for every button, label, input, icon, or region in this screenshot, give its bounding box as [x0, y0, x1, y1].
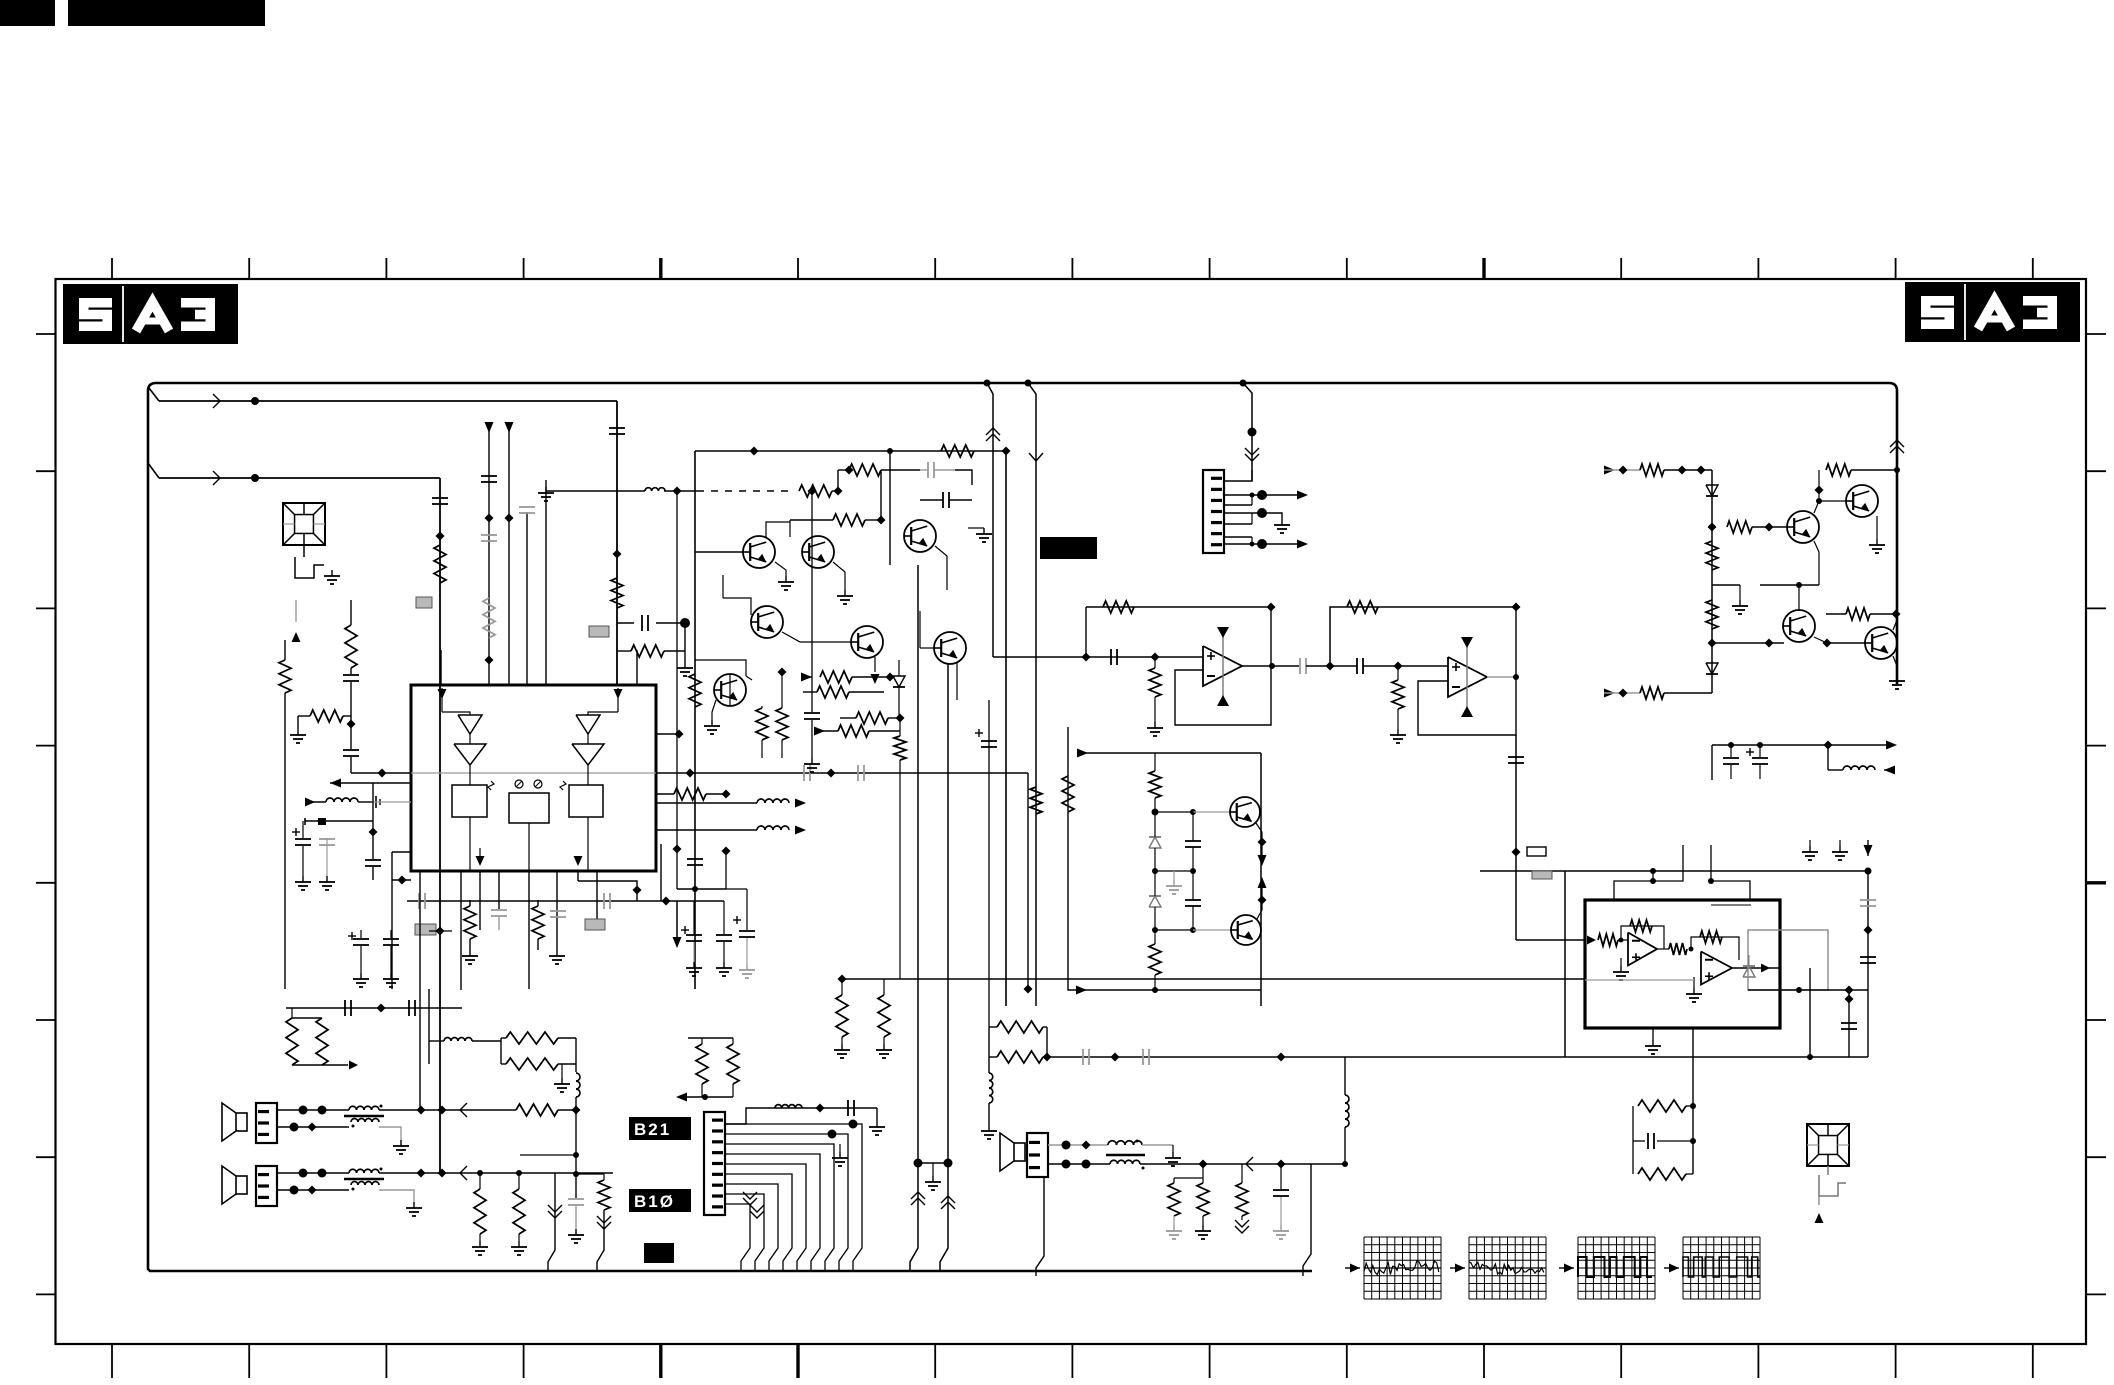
SP3 coil top [1108, 1140, 1173, 1146]
U2 feedback box [1175, 607, 1271, 725]
ruler ticks top [112, 258, 2033, 279]
cap x1281 b [1273, 1164, 1289, 1225]
resistor U2 minus [1149, 657, 1161, 722]
resistor U3 fb [1347, 601, 1378, 613]
node y745 a [1728, 741, 1833, 750]
ground x562 [554, 1064, 570, 1092]
ecap x747 [726, 889, 755, 978]
IC U1 zig b [560, 781, 566, 790]
ground U4 a [1802, 840, 1818, 860]
coil y1108 [775, 1104, 825, 1113]
resistor x1712 a [1706, 541, 1718, 570]
cap x499 [491, 910, 507, 930]
rail x1565 [1564, 871, 1566, 1057]
resistor y794 [656, 788, 731, 800]
capacitor on x440 [432, 498, 448, 504]
resistor x900 [894, 718, 906, 979]
ecap x361 [348, 930, 369, 973]
SP3 coil bot [1110, 1157, 1345, 1171]
resistor x1242 [1235, 1164, 1249, 1233]
SP3 nodes y1164 [1199, 1160, 1349, 1169]
cap x1731 [1723, 745, 1739, 779]
resistor base Q10 [1727, 521, 1787, 533]
SP1 out top [379, 1103, 516, 1117]
wire y990 right [1748, 986, 1868, 995]
resistor x1203 [1197, 1183, 1209, 1225]
cap y1008 a [345, 1000, 351, 1016]
IC U1 body [411, 685, 656, 871]
resistor U3 minus [1392, 666, 1404, 729]
Q4-Q5 wire [782, 632, 851, 642]
U4 in arrow [1516, 936, 1596, 945]
node y901 [662, 897, 671, 906]
ground x327 [319, 876, 335, 890]
resistor loop A [989, 1021, 1047, 1057]
wire y491 up [837, 470, 839, 491]
node mid y666 [1326, 662, 1335, 671]
arrow wire y753 [1077, 749, 1261, 758]
wire IC left y773 [351, 772, 411, 774]
node x726 [722, 847, 731, 890]
wire VCC2 drop [439, 478, 441, 1173]
Q4 base wire [723, 575, 751, 615]
fiducial left pad [295, 557, 324, 578]
arrow in y802 [305, 798, 326, 807]
rail x993 [984, 380, 1001, 658]
SP3 wire top [1048, 1141, 1108, 1150]
wire y871 [1480, 868, 1872, 875]
ground x480 [472, 1241, 488, 1255]
CN2 pin7 wire [1224, 539, 1308, 549]
CN2 pin5 wire [1224, 513, 1252, 524]
SP2 wire top [277, 1169, 349, 1178]
IC U1 pin arrow right [588, 688, 623, 715]
coil x989 [981, 1057, 997, 1139]
inductor y802 [326, 798, 372, 802]
gnd y880 blk [1166, 871, 1182, 894]
speaker SP1 [222, 1103, 247, 1141]
transistor Q7 [714, 674, 746, 706]
resistor x351 [345, 600, 357, 674]
node U2 fb [1267, 603, 1276, 612]
big node y623 [680, 618, 690, 628]
opamp U2 [1203, 646, 1242, 686]
connector CN5 [704, 1112, 725, 1215]
fiducial left [283, 503, 325, 545]
rail x604 [597, 1210, 611, 1271]
node x617 mid [613, 550, 622, 559]
Q12 base drop [1798, 585, 1800, 611]
IC out stub y734 [656, 730, 684, 739]
node x918 y1163 [914, 1159, 923, 1168]
arrow on VCC2 [213, 471, 220, 485]
node x440 [436, 532, 445, 541]
resistor x480 b [474, 1173, 486, 1241]
left v x501 [429, 1038, 501, 1064]
node y880 [392, 876, 411, 885]
header bar left [0, 0, 55, 26]
IC pin x499 [498, 871, 500, 909]
Q10 emitter [1760, 541, 1819, 588]
node x782 [778, 668, 787, 677]
black box SA [1040, 537, 1097, 559]
U3 feedback box [1418, 607, 1516, 735]
speaker SP2 [222, 1166, 247, 1204]
U4A fb [1621, 920, 1664, 949]
ground x414 [406, 1202, 422, 1216]
IC U1 pin arrow left [438, 688, 471, 715]
node x489 [485, 514, 494, 523]
ground x303 [295, 876, 311, 890]
capacitor on x617 [609, 425, 625, 437]
Q12-Q13 wire [1712, 637, 1866, 648]
CN5 wire 9 [725, 1204, 750, 1271]
wire VCC1 drop [616, 401, 618, 685]
inductor on y491 [645, 488, 665, 491]
arrow out left y783 [330, 779, 411, 788]
coil y770 [1828, 745, 1895, 775]
coil out y803 [656, 799, 806, 808]
ground top x546 [538, 487, 554, 501]
ground x557b [549, 950, 565, 964]
opamp U4A [1628, 933, 1657, 966]
diode D1 [1149, 812, 1161, 871]
transistor Q4 [751, 606, 783, 638]
node x373 [369, 828, 378, 837]
cap x351 [343, 675, 359, 724]
cap y623 [617, 615, 685, 631]
node y451 c [1002, 447, 1011, 456]
speaker SP3 [1000, 1133, 1025, 1171]
transistor Q12 [1783, 610, 1815, 642]
fiducial left arrow [292, 600, 301, 642]
resistor x322 [316, 1018, 328, 1065]
opamp U2 input wire [993, 656, 1203, 658]
rail x1036 [1025, 380, 1044, 1007]
diode D2 [1149, 871, 1161, 930]
resistor y692 [803, 686, 884, 698]
page border frame [56, 279, 2087, 1344]
fiducial left lead [303, 545, 305, 557]
rail x429 [428, 989, 430, 1064]
arrow x1868 top [1864, 840, 1873, 856]
wire IC left y852 [392, 852, 411, 989]
rail x1311 [1303, 1164, 1311, 1276]
cap U2 in [1111, 649, 1117, 665]
rail x527 [526, 512, 528, 685]
Q1 base wire [695, 551, 743, 553]
cap U3 in [1333, 658, 1398, 674]
rail x1028 [1024, 773, 1033, 994]
cap x391 [383, 930, 399, 973]
Q6 emitter down [956, 663, 958, 700]
U4B gnd [1686, 977, 1702, 1002]
node x1712 a [1708, 523, 1717, 532]
ground x1174 [1166, 1225, 1182, 1239]
ground near fiducial [324, 570, 340, 584]
Q8 emitter [1256, 823, 1267, 866]
ruler ticks right [2086, 334, 2106, 1294]
resistor y677 arrow [801, 671, 890, 683]
wire VCC1 [159, 400, 617, 402]
ground x1281 [1273, 1225, 1289, 1239]
connector CN3 [256, 1103, 277, 1143]
node U3 in [1394, 662, 1449, 671]
resistor x604 [598, 1174, 610, 1210]
node fan a [828, 1130, 837, 1139]
resistor x538 below [532, 900, 544, 950]
resistor x1712 b [1706, 600, 1718, 629]
cap on x489 a [481, 476, 497, 482]
resistor y651 [617, 623, 685, 657]
Q13 emitter gnd [1889, 656, 1905, 689]
resistor y1110 [516, 1104, 576, 1116]
IC U1 trim b [534, 780, 542, 788]
cap U2 out [1300, 658, 1327, 674]
rail x812 [804, 487, 820, 773]
IC U1 zig a [488, 781, 494, 790]
wire y889 [677, 886, 726, 892]
cap x1868 b [1860, 957, 1876, 963]
fb resistor top [1633, 1100, 1696, 1141]
cap y901 [419, 893, 425, 909]
node y491 [832, 487, 843, 496]
CN2 ground [1274, 519, 1290, 533]
opamp U2 power [1217, 627, 1229, 706]
Q1-Q2 link [766, 520, 790, 537]
wire sig491 [546, 490, 700, 492]
IC pin x597 [596, 871, 598, 930]
coil out y830 [656, 826, 806, 835]
U4B out [1732, 964, 1780, 973]
black box bottom [644, 1243, 674, 1263]
IC pin x557 [556, 871, 558, 950]
node y451 a [750, 447, 759, 456]
resistor x733 [727, 1038, 739, 1097]
wire y1065 [292, 1061, 358, 1070]
ground U4 b [1832, 840, 1848, 860]
transistor Q2 [802, 536, 834, 568]
SP2 out top [379, 1166, 613, 1180]
node fan b [849, 1120, 858, 1129]
opamp U3 [1448, 657, 1487, 697]
transistor Q11 [1846, 485, 1878, 517]
Q7 emitter gnd [704, 700, 720, 734]
SP1 wire bot [277, 1123, 349, 1132]
resistor x470 below [464, 900, 476, 950]
ruler ticks left [36, 334, 55, 1294]
resistor y718 [840, 712, 905, 724]
CN5 top wire [725, 1108, 877, 1124]
wire pads y821 [305, 818, 373, 825]
ground x685 [677, 651, 693, 676]
wire y901 [407, 900, 724, 902]
rail x1068 [1062, 727, 1076, 990]
Q2 gnd [833, 562, 853, 604]
arrow y731 [814, 727, 838, 736]
wire y1008 [286, 1007, 462, 1009]
rail x1712 low [1711, 745, 1713, 780]
transistor Q8 [1230, 797, 1260, 827]
Q3 emitter [935, 528, 992, 590]
U4 fb loop [1692, 1028, 1694, 1174]
resistor on x617 [611, 578, 623, 608]
opamp U3 power [1461, 637, 1473, 717]
resistor x1155 c [1149, 930, 1161, 990]
cap x576 [568, 1199, 584, 1243]
U4 out drop [1780, 968, 1810, 1057]
resistor x762 [756, 706, 768, 758]
resistor y1064b [501, 1058, 576, 1070]
wire y1174 [576, 1173, 604, 1175]
wire y1163 [918, 1162, 948, 1164]
resistor y1038 [501, 1032, 576, 1044]
node y451 b [887, 448, 893, 454]
rail x1868 [1864, 871, 1873, 1057]
svg-text:B21: B21 [634, 1120, 671, 1139]
rail x441 into IC [440, 650, 442, 685]
CN2 pin3 wire [1224, 495, 1252, 505]
node x509 [505, 514, 514, 523]
IC U1 inner wire [411, 772, 656, 774]
rail x1044 jog [1036, 1177, 1044, 1276]
ecap x1760 [1746, 745, 1768, 779]
node y1008 [377, 1004, 386, 1013]
resistor y731 [838, 725, 900, 737]
label B10 [629, 1189, 691, 1212]
cluster low wire y745 [1712, 693, 1828, 745]
resistor x1174 c [1168, 1178, 1180, 1225]
dashed wire y491 [700, 490, 792, 492]
IC U1 amp B [572, 715, 604, 765]
resistor in bottom [1640, 687, 1712, 699]
IC U1 trim a [515, 780, 523, 788]
transformer T2 [344, 1168, 384, 1191]
IC U1 block C [569, 765, 603, 817]
IC U1 block B [509, 793, 549, 823]
CN2 pin6 wire [1224, 537, 1252, 544]
rail x661 down [660, 844, 662, 901]
U2 output wire [1242, 663, 1299, 669]
SP2 out bot [379, 1190, 414, 1202]
resistor y470 [838, 464, 920, 476]
fiducial right arrow [1815, 1196, 1824, 1223]
cap x373 [365, 783, 381, 880]
ground x391 [383, 973, 399, 987]
U3 fb wire [1330, 607, 1516, 666]
cap x1193 b [1185, 871, 1201, 930]
cluster top wire y451 [695, 450, 1006, 452]
node on VCC1 [251, 397, 259, 405]
node U3 fb [1512, 603, 1521, 612]
cap y1108 [848, 1100, 854, 1116]
rail x948 long [947, 663, 949, 1163]
ground x519 [511, 1241, 527, 1255]
node y773 [378, 769, 387, 778]
resistor x884 d [876, 979, 892, 1058]
IC U4 overbar [1711, 904, 1751, 906]
node below IC [429, 927, 452, 936]
rail x1849 [1845, 990, 1854, 1057]
resistor y491 [799, 485, 832, 497]
rail x918 jog [910, 1163, 925, 1271]
rail x1261 [1260, 753, 1262, 1006]
Q13 collector [1893, 614, 1897, 630]
resistor x695b [689, 674, 701, 707]
arrow on VCC1 [213, 394, 220, 408]
rail x1897 chevron [1890, 440, 1904, 453]
resistor loop B [989, 1027, 1043, 1063]
cap x694d [681, 901, 702, 976]
SP1 wire top [277, 1106, 349, 1115]
diode D4 [1706, 663, 1718, 674]
arrow x677 [673, 901, 682, 948]
ecap x989 [975, 700, 997, 1027]
IC out wire y773 [656, 769, 1028, 778]
resistor x842 d [834, 979, 850, 1058]
node U2 in a [1082, 653, 1091, 662]
rail x890 short [889, 451, 891, 565]
resistor y614 right [1826, 608, 1901, 620]
rail x948 jog [940, 1163, 955, 1271]
wire y930 blk [1152, 927, 1231, 933]
cap y1057 a [1083, 1049, 1089, 1065]
IC U4 body [1585, 900, 1780, 1028]
cluster links [695, 660, 752, 706]
opamp U2 feedback wire [1086, 606, 1271, 608]
transistor Q5 [851, 626, 883, 658]
node y677 [886, 673, 895, 682]
connector CN2 [1203, 470, 1224, 553]
fb resistor bot [1638, 1168, 1693, 1180]
U4 diode [1743, 955, 1755, 977]
node U2 in b [1151, 653, 1160, 662]
grey box d [585, 919, 605, 930]
fb cap mid [1633, 1133, 1696, 1174]
cap on x527 [519, 507, 535, 513]
connector CN4 [256, 1166, 277, 1206]
transistor Q3 [904, 520, 936, 552]
ground U3 [1390, 729, 1406, 743]
transistor Q10 [1787, 511, 1819, 543]
U4B fb [1691, 931, 1739, 960]
diode x899 [893, 660, 905, 718]
ground U2 [1147, 722, 1163, 736]
cap x1868 a [1860, 900, 1876, 906]
wire y1097 [676, 1093, 733, 1102]
SP1 out bot [379, 1127, 401, 1140]
grey inner box [1748, 930, 1828, 990]
label B21 [629, 1117, 691, 1140]
ecap x327 [319, 838, 335, 876]
arrow wire y990 [1076, 986, 1261, 995]
cap x1193 a [1185, 812, 1201, 871]
rail x509 arrow [505, 422, 514, 685]
U4A gnd [1613, 958, 1629, 980]
scope waveform 1 [1345, 1237, 1441, 1299]
sheet label SA3 top-left [63, 284, 238, 344]
resistor x285 [279, 640, 291, 989]
resistor y451 [941, 445, 974, 457]
cap y1057 b [1143, 1049, 1149, 1065]
node on VCC2 [251, 474, 259, 482]
transistor Q6 [934, 632, 966, 664]
cap x1849 [1841, 1023, 1857, 1029]
diode D3 [1706, 485, 1718, 496]
resistor y470 right [1819, 464, 1900, 490]
rail x1712 [1711, 470, 1713, 693]
grey box b [589, 626, 609, 637]
